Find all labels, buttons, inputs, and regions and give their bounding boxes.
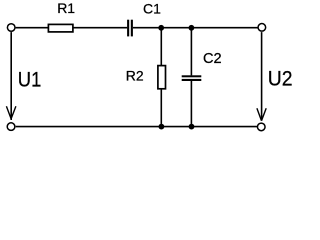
wire node B down to C2 xyxy=(190,28,192,76)
terminal bottom-right xyxy=(257,123,265,131)
node junction top B xyxy=(189,25,195,31)
wire C2 to bottom rail xyxy=(190,81,192,127)
wire R2 to bottom rail xyxy=(160,89,162,126)
resistor R2 xyxy=(126,66,166,89)
node junction bottom A xyxy=(159,124,165,130)
terminal top-left xyxy=(7,24,15,32)
terminal top-right xyxy=(258,24,266,32)
wire C1 to right terminal xyxy=(133,27,258,29)
capacitor C2 xyxy=(182,51,222,81)
wire bottom rail xyxy=(16,126,257,128)
svg-text:R1: R1 xyxy=(57,0,75,16)
terminal bottom-left xyxy=(7,123,15,131)
wire left branch vertical xyxy=(10,32,12,120)
svg-text:U2: U2 xyxy=(268,67,293,91)
U1 arrow head xyxy=(6,106,16,119)
node junction bottom B xyxy=(189,124,195,130)
U2 arrow head xyxy=(257,108,266,121)
wire R1 to C1 xyxy=(74,27,128,29)
wire top rail left segment xyxy=(16,27,48,29)
resistor R1 xyxy=(48,0,75,32)
wire node A down to R2 xyxy=(160,28,162,66)
svg-text:C1: C1 xyxy=(143,0,161,16)
node junction top A xyxy=(158,25,164,31)
capacitor C1 xyxy=(127,0,161,36)
svg-text:U1: U1 xyxy=(18,68,42,92)
wire right branch vertical xyxy=(261,32,263,120)
svg-text:R2: R2 xyxy=(126,68,144,84)
svg-text:C2: C2 xyxy=(203,51,222,67)
